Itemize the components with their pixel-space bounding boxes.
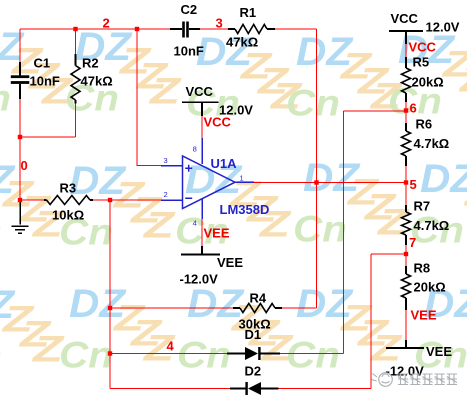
wire: node 4 to D1 anode	[110, 353, 227, 355]
svg-text:Cn: Cn	[59, 335, 113, 376]
svg-text:R8: R8	[414, 261, 431, 276]
svg-text:Z: Z	[143, 205, 176, 246]
power symbol VEE (op-amp) -12.0V	[180, 246, 244, 287]
wire: node 4 vertical rail x=110	[109, 200, 111, 389]
svg-text:47kΩ: 47kΩ	[226, 35, 258, 50]
wire: R2 bottom stub	[75, 104, 77, 138]
svg-text:5: 5	[410, 177, 417, 192]
wire: R3 right to op-amp - input	[93, 199, 161, 201]
wire: D2 right	[279, 388, 372, 390]
wire: R4 right up to output	[282, 307, 317, 309]
power symbol VEE (bottom right) -12.0V	[386, 340, 453, 379]
wire: left rail lower (C1 to node 0 / R3)	[19, 99, 21, 200]
junction at (75.5,29)	[73, 27, 77, 31]
wire: D1 right	[280, 353, 344, 355]
svg-text:6: 6	[410, 101, 417, 116]
svg-text:R7: R7	[414, 199, 431, 214]
svg-text:2: 2	[103, 16, 110, 31]
svg-text:VCC: VCC	[391, 11, 419, 26]
svg-text:8: 8	[193, 145, 197, 154]
svg-text:0: 0	[21, 158, 28, 173]
svg-text:4.7kΩ: 4.7kΩ	[414, 218, 450, 233]
capacitor C2	[170, 2, 204, 59]
svg-text:10nF: 10nF	[30, 74, 60, 89]
svg-text:R6: R6	[416, 117, 433, 132]
svg-text:Cn: Cn	[293, 209, 347, 250]
svg-text:1: 1	[240, 174, 244, 183]
junction at (406,110.5)	[404, 108, 408, 112]
svg-text:DZ: DZ	[420, 157, 467, 201]
svg-text:Z: Z	[149, 71, 182, 112]
svg-text:20kΩ: 20kΩ	[414, 280, 446, 295]
svg-text:VEE: VEE	[426, 344, 452, 359]
svg-text:VCC: VCC	[204, 115, 232, 130]
wire: R3 left	[20, 199, 44, 201]
svg-text:7: 7	[409, 235, 416, 250]
wire: op-amp VCC stub red	[201, 116, 203, 138]
ground	[12, 200, 29, 233]
svg-text:D1: D1	[245, 327, 262, 342]
power symbol VCC (op-amp) 12.0V	[182, 84, 253, 118]
wire: op-amp VEE stub red	[201, 219, 203, 246]
op-amp U1A LM358D	[161, 138, 269, 219]
svg-text:VEE: VEE	[411, 308, 437, 323]
svg-text:4: 4	[193, 219, 197, 228]
svg-text:Cn: Cn	[177, 335, 231, 376]
wire: R4 left	[110, 307, 233, 309]
resistor R5	[402, 55, 444, 103]
svg-text:C2: C2	[181, 2, 198, 17]
svg-text:U1A: U1A	[211, 156, 238, 171]
svg-text:Cn: Cn	[0, 211, 2, 252]
capacitor C1	[11, 56, 60, 100]
svg-text:12.0V: 12.0V	[426, 20, 460, 35]
svg-text:VEE: VEE	[204, 226, 230, 241]
svg-text:Cn: Cn	[0, 336, 2, 377]
wire: right rail red segments	[405, 44, 407, 340]
wire: bottom to D2 cathode	[110, 388, 230, 390]
svg-text:4.7kΩ: 4.7kΩ	[414, 136, 450, 151]
diode D2	[230, 364, 279, 396]
junction at (20,200)	[18, 198, 22, 202]
svg-text:VCC: VCC	[409, 40, 437, 55]
wire: node 6 horizontal	[344, 110, 407, 112]
resistor R6	[402, 117, 450, 167]
svg-text:10nF: 10nF	[174, 44, 204, 59]
junction at (406,254)	[404, 252, 408, 256]
svg-text:4: 4	[167, 339, 175, 354]
svg-text:C1: C1	[34, 56, 51, 71]
svg-text:LM358D: LM358D	[220, 202, 270, 217]
svg-text:-12.0V: -12.0V	[180, 272, 219, 287]
wire: node 6 vertical down to D1	[343, 111, 345, 354]
resistor R8	[402, 261, 446, 311]
wire: node 2 vertical to op-amp + input	[137, 29, 161, 166]
svg-text:Z: Z	[377, 202, 410, 243]
svg-text:VCC: VCC	[186, 84, 214, 99]
wire: R2 top stub	[75, 29, 77, 54]
wire: node 2 top horizontal	[20, 28, 170, 30]
resistor R7	[402, 199, 450, 246]
wire: left rail upper (to C1)	[19, 29, 21, 62]
wire: node 7 vertical down to D2	[370, 254, 372, 389]
svg-text:20kΩ: 20kΩ	[412, 75, 444, 90]
power symbol VCC (top right) 12.0V	[389, 11, 460, 44]
junction at (316.5,182.5)	[314, 180, 318, 184]
svg-text:R2: R2	[82, 56, 99, 71]
wire: feedback vertical x=316.5 (R1/R4 to output)	[316, 29, 318, 308]
svg-text:D2: D2	[245, 364, 262, 379]
wire: node 3 to R1	[200, 28, 228, 30]
svg-text:10kΩ: 10kΩ	[52, 208, 84, 223]
junction at (137,29)	[135, 27, 139, 31]
junction at (110,200)	[108, 198, 112, 202]
svg-text:R1: R1	[240, 5, 257, 20]
svg-text:R5: R5	[413, 55, 430, 70]
svg-text:3: 3	[216, 16, 223, 31]
junction at (20,137)	[18, 135, 22, 139]
svg-text:2: 2	[164, 190, 168, 199]
svg-text:Cn: Cn	[286, 335, 340, 376]
svg-text:R3: R3	[60, 181, 77, 196]
wire: jog at y=137 joining C1 rail and R2	[20, 136, 76, 138]
svg-text:47kΩ: 47kΩ	[81, 74, 113, 89]
wire: node 7 horizontal	[371, 253, 406, 255]
junction at (110,308)	[108, 306, 112, 310]
svg-text:R4: R4	[250, 291, 267, 306]
resistor R1	[226, 5, 275, 50]
svg-text:3: 3	[164, 156, 168, 165]
svg-text:Cn: Cn	[0, 78, 11, 119]
wire: op-amp output to node 5	[254, 182, 406, 184]
resistor R4	[233, 291, 282, 332]
svg-text:Cn: Cn	[286, 83, 340, 124]
resistor R3	[44, 181, 93, 223]
junction at (406,182.5)	[404, 180, 408, 184]
junction at (110,353.5)	[108, 351, 112, 355]
resistor R2	[71, 54, 113, 104]
svg-text:Z: Z	[459, 59, 467, 100]
diode D1	[227, 327, 280, 360]
svg-text:VEE: VEE	[217, 255, 243, 270]
wire: R1 right	[275, 28, 317, 30]
